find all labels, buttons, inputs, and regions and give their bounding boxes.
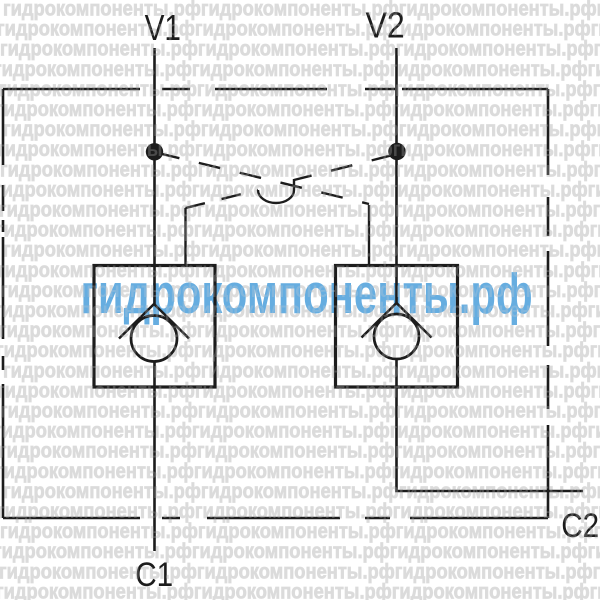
svg-text:гидрокомпоненты.рфгидрокомпоне: гидрокомпоненты.рфгидрокомпоненты.рфгидр…: [0, 580, 600, 600]
